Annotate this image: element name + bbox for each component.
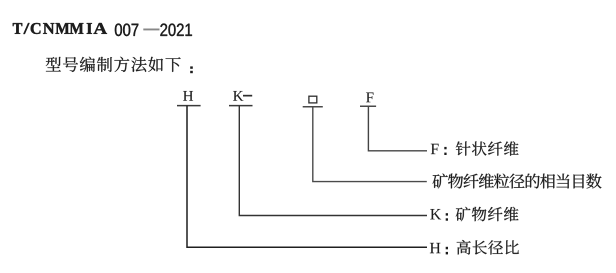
underline below H xyxy=(177,105,201,107)
node letter K xyxy=(233,91,243,101)
node letter H xyxy=(183,91,193,101)
node K dash xyxy=(243,95,252,97)
header digits 007 xyxy=(115,24,138,37)
label text 矿物纤维粒径的相当目数 xyxy=(433,174,602,189)
underline below K xyxy=(229,105,253,107)
label text 矿物纤维 xyxy=(456,207,519,221)
header standard number T/CNMMIA xyxy=(13,23,107,34)
leader wire H xyxy=(187,106,427,248)
underline below F xyxy=(360,105,376,107)
leader wire square xyxy=(313,107,427,182)
label H letter xyxy=(430,243,440,253)
label H colon xyxy=(446,247,448,255)
label text 针状纤维 xyxy=(456,141,519,155)
label F letter xyxy=(431,144,439,154)
intro colon xyxy=(190,66,193,73)
header dash xyxy=(143,29,159,31)
intro text 型号编制方法如下 xyxy=(46,57,181,72)
leader wire F xyxy=(368,106,427,151)
node letter F xyxy=(366,92,373,102)
underline below square xyxy=(303,106,323,108)
label F colon xyxy=(444,147,446,155)
node placeholder square xyxy=(309,96,317,103)
label K letter xyxy=(430,209,441,219)
leader wire K xyxy=(239,106,427,216)
label K colon xyxy=(446,213,448,221)
label text 高长径比 xyxy=(457,240,519,255)
header digits 2021 xyxy=(160,24,192,37)
